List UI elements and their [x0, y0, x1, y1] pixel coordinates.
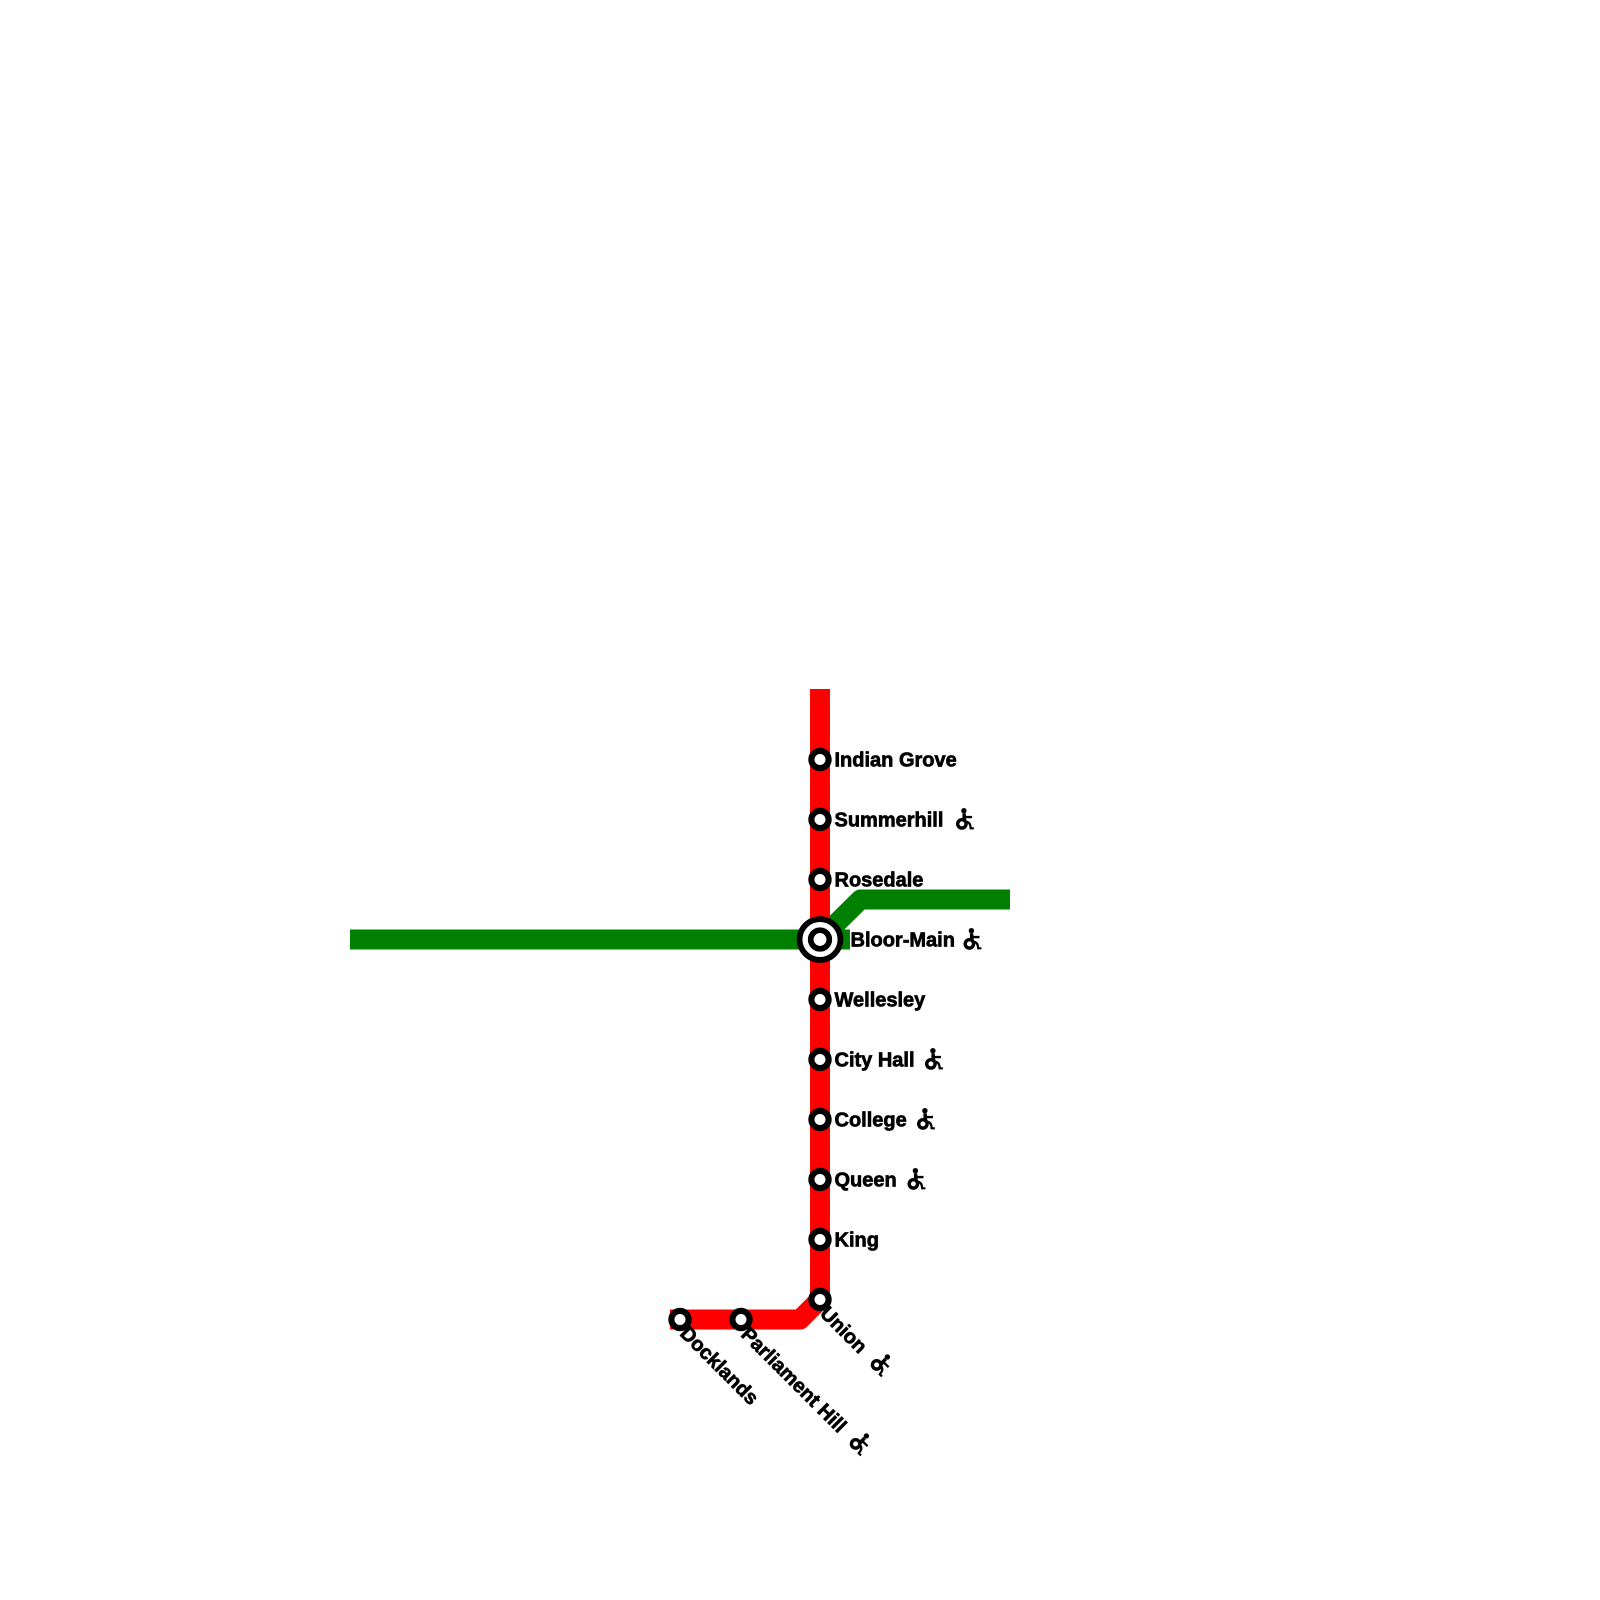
station Docklands	[671, 1311, 688, 1328]
station Wellesley	[811, 991, 828, 1008]
svg-text:King: King	[835, 1230, 879, 1252]
station Union	[811, 1291, 828, 1308]
svg-text:Indian Grove: Indian Grove	[835, 750, 957, 772]
wheelchair icon College	[919, 1108, 935, 1129]
label Parliament Hill (rotated)	[736, 1321, 875, 1460]
station Summerhill	[811, 811, 828, 828]
svg-text:Summerhill: Summerhill	[835, 810, 944, 832]
svg-text:Wellesley: Wellesley	[835, 990, 927, 1012]
label Union (rotated)	[815, 1300, 896, 1381]
green line trunk	[360, 930, 840, 950]
wheelchair icon Bloor-Main	[965, 928, 981, 949]
station Indian Grove	[811, 751, 828, 768]
station Rosedale	[811, 871, 828, 888]
svg-text:Rosedale: Rosedale	[835, 870, 924, 892]
station City Hall	[811, 1051, 828, 1068]
station Parliament Hill	[732, 1311, 749, 1328]
svg-text:College: College	[835, 1110, 907, 1132]
station King	[811, 1231, 828, 1248]
interchange Bloor-Main	[800, 919, 841, 960]
station College	[811, 1111, 828, 1128]
label Docklands (rotated)	[675, 1322, 762, 1409]
wheelchair icon Queen	[909, 1168, 925, 1189]
svg-text:Bloor-Main: Bloor-Main	[851, 930, 955, 952]
wheelchair icon Union	[870, 1351, 897, 1378]
red line	[680, 699, 820, 1320]
wheelchair icon Summerhill	[958, 808, 974, 829]
green line branch	[820, 900, 1000, 940]
svg-text:Queen: Queen	[835, 1170, 897, 1192]
station Queen	[811, 1171, 828, 1188]
wheelchair icon City Hall	[927, 1048, 943, 1069]
svg-text:City Hall: City Hall	[835, 1050, 915, 1072]
wheelchair icon Parliament Hill	[849, 1430, 876, 1457]
